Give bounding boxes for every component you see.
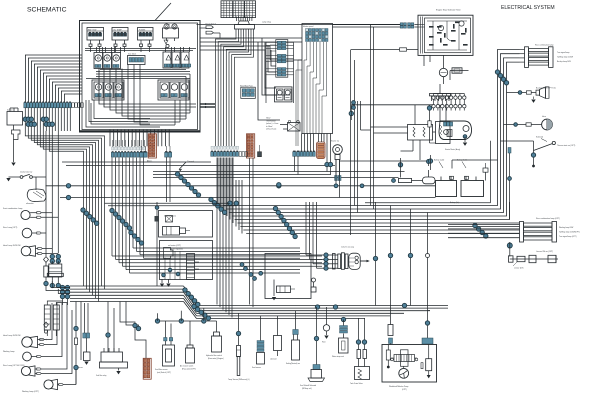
- capacitor element on wire x157: [155, 202, 159, 286]
- solenoid box with X: [280, 120, 300, 131]
- head lamp right: [3, 303, 57, 348]
- node on bus x404: [402, 303, 406, 307]
- svg-text:Fuel Shutoff Solenoid: Fuel Shutoff Solenoid: [300, 384, 316, 387]
- wires above strip S2: [113, 140, 145, 147]
- connector strip S3 teal: [211, 151, 239, 157]
- wires from S7a stack west: [270, 45, 276, 51]
- connector chain I on mid bus: [273, 206, 297, 238]
- connector pair S5a: [140, 151, 148, 157]
- relay group 2 (3 relays): [163, 47, 191, 68]
- nodes bus left: [315, 305, 345, 322]
- svg-text:Head Lamp 35/36.5W: Head Lamp 35/36.5W: [3, 245, 21, 247]
- wires bend to red connector: [120, 302, 146, 359]
- svg-text:(not) Switch (OPT): (not) Switch (OPT): [157, 371, 171, 374]
- comb staircase into vertical bundle: [216, 36, 254, 146]
- air heater box: [160, 241, 213, 280]
- svg-text:Starter Motor (Assy): Starter Motor (Assy): [445, 148, 461, 151]
- box right of air heater: [265, 254, 311, 301]
- svg-text:Turn signal lamp: Turn signal lamp: [557, 51, 569, 54]
- svg-text:Safety(Neutral) sw: Safety(Neutral) sw: [286, 362, 301, 365]
- connector matrix table: [221, 1, 256, 18]
- node mid-left a: [44, 281, 48, 285]
- svg-text:T-branch: T-branch: [187, 161, 194, 163]
- wires into column switch: [306, 202, 324, 268]
- fuse panel outer box: [80, 21, 201, 133]
- svg-text:(OPT): (OPT): [402, 389, 407, 391]
- component hydraulic filter switch: [206, 321, 224, 360]
- node battery feed mid: [277, 184, 281, 188]
- svg-text:Thermo start sw (OPT): Thermo start sw (OPT): [557, 144, 576, 147]
- teal nodes inside air heater box: [162, 268, 180, 277]
- orange hatched connector: [317, 134, 326, 159]
- connector block battery-sw: [87, 28, 104, 47]
- svg-text:to Glow!: to Glow!: [266, 125, 273, 128]
- connector dot pairs row 1: [23, 117, 33, 121]
- svg-text:(Evacuator) (OPT): (Evacuator) (OPT): [182, 368, 196, 371]
- svg-text:Water temp unit: Water temp unit: [332, 355, 344, 358]
- component air cleaner switch: [180, 321, 196, 371]
- svg-text:Battery Cable: Battery Cable: [434, 159, 444, 162]
- svg-text:Windshield Washer Pump: Windshield Washer Pump: [389, 385, 408, 388]
- wires monitor to strip S4: [302, 134, 314, 152]
- lamp relay comb: [235, 21, 271, 36]
- fan display box: [159, 211, 213, 238]
- column switch connector dots: [324, 253, 328, 270]
- dark connector pair: [258, 145, 262, 157]
- svg-text:FUSES: FUSES: [139, 29, 146, 31]
- wires to glow controller: [371, 105, 436, 133]
- svg-text:Backup lamp 10W: Backup lamp 10W: [557, 61, 571, 63]
- glow controller box: [408, 125, 433, 141]
- wires monitor box left edge down: [296, 60, 302, 101]
- pump valve cross block: [391, 350, 418, 367]
- svg-text:Engine Stop Solenoid Timer: Engine Stop Solenoid Timer: [436, 9, 461, 12]
- relay group 4 (lower right): [158, 80, 189, 100]
- main relay: [163, 24, 179, 41]
- monitor panel connector grid: [306, 29, 329, 42]
- head lamp left: [3, 245, 58, 256]
- nodes scattered top right: [428, 155, 432, 170]
- sub bus line below batteries: [365, 141, 491, 203]
- svg-text:Horn: Horn: [322, 341, 326, 344]
- component water temp unit: [332, 320, 348, 359]
- svg-text:BATT SW: BATT SW: [88, 28, 96, 31]
- node below C2: [507, 242, 512, 257]
- component small horn with ground: [322, 307, 330, 344]
- battery feed line upper: [46, 185, 436, 187]
- svg-text:ELECTRICAL SYSTEM: ELECTRICAL SYSTEM: [501, 5, 555, 11]
- component fuel shutoff solenoid: [300, 307, 325, 390]
- wires below timer box: [424, 55, 430, 66]
- wires through inline connector S8: [333, 25, 419, 27]
- open node below column switch: [311, 278, 316, 292]
- verticals below glow brown connector: [250, 158, 254, 307]
- node on resistor chain: [392, 179, 396, 183]
- bottom bus step diagonals: [184, 286, 197, 319]
- component temp sensor thin: [228, 313, 250, 381]
- vertical x390 with node: [388, 206, 392, 321]
- t-branch arrow pointer: [179, 161, 194, 171]
- fuel filter relay on bracket: [96, 302, 128, 378]
- svg-text:batt sw: batt sw: [7, 109, 13, 112]
- small element below diamond: [44, 266, 48, 282]
- center vertical pair x354-357: [355, 60, 358, 213]
- vertical bundle B (from strip S2 down): [112, 158, 322, 274]
- traction lock switch box: [7, 108, 23, 125]
- svg-text:solenoid: solenoid: [270, 359, 276, 361]
- rear combination connector C1: [520, 44, 574, 68]
- vertical x427 with open node: [425, 213, 429, 339]
- svg-text:Hydraulic filter switch: Hydraulic filter switch: [206, 354, 222, 357]
- svg-text:Solenoid: Solenoid: [536, 137, 543, 139]
- fuse panel heavy feed lines: [200, 103, 215, 108]
- node mid-left b: [50, 283, 54, 287]
- wire traction to ground: [13, 140, 15, 163]
- connector block fuses: [138, 28, 154, 47]
- left fan wires descending then east then south into bundle A: [25, 131, 104, 205]
- svg-text:(W/Stop sol.): (W/Stop sol.): [302, 387, 312, 390]
- svg-text:Monitor panel: Monitor panel: [303, 25, 314, 28]
- controller area feed wires: [361, 101, 447, 160]
- plug below traction box: [12, 125, 21, 140]
- svg-text:Turn signal lamp (OPT): Turn signal lamp (OPT): [559, 235, 577, 238]
- stack side stub wires: [266, 42, 294, 103]
- wire pair below S4b: [295, 156, 299, 174]
- mid bus horizontal bundle: [223, 202, 520, 234]
- engine stop solenoid timer box inner: [425, 18, 471, 53]
- svg-text:Working lamp 55W: Working lamp 55W: [559, 226, 574, 229]
- node pair on center verticals: [352, 101, 356, 110]
- svg-text:Starter sw: Starter sw: [331, 140, 340, 143]
- rear connector C2: [520, 217, 580, 242]
- svg-text:Rear combination lamp: Rear combination lamp: [535, 44, 553, 47]
- svg-text:Backup Alarm (OPT 8.5): Backup Alarm (OPT 8.5): [536, 87, 556, 90]
- svg-text:Tail/Stop lamp 21/5W(OPT): Tail/Stop lamp 21/5W(OPT): [559, 231, 580, 234]
- svg-text:Fuel filter sensor: Fuel filter sensor: [155, 368, 168, 371]
- connector stack S7a: [277, 41, 286, 49]
- bottom bus right segment: [197, 306, 449, 319]
- svg-text:fan display (re): fan display (re): [164, 216, 176, 218]
- bottom bus left segment: [70, 286, 184, 302]
- component oil pressure switch: [286, 311, 301, 366]
- connector strip S3 labels above: [211, 146, 239, 149]
- feed line y104.8 right side: [349, 105, 433, 120]
- connector chain A: [81, 208, 99, 226]
- connector chain G on lamp lines: [473, 223, 488, 238]
- top-center vertical drops to stacks: [258, 38, 280, 120]
- node mid-left c: [56, 283, 60, 287]
- relay group 1 (3 relays): [94, 47, 121, 69]
- vertical bundle C: [133, 158, 300, 259]
- connector strip S3 white cells: [239, 152, 248, 157]
- backup alarm symbol: [507, 87, 556, 103]
- rear working lamp: [3, 303, 72, 376]
- mid bundle horizontal wires y171-179: [153, 172, 405, 178]
- svg-text:Fuel sensor: Fuel sensor: [252, 366, 261, 369]
- glow plugs assembly: [432, 94, 466, 111]
- wire battery top link: [452, 160, 498, 169]
- pump resistor: [421, 345, 432, 379]
- fuse panel bottom exit wires: [110, 130, 169, 147]
- ground arrow neutral switch: [6, 178, 10, 181]
- connector stack S7b: [277, 54, 286, 62]
- component solenoid rect: [270, 316, 282, 361]
- connector strip S4b small: [293, 151, 300, 157]
- svg-text:fuse block: fuse block: [128, 54, 136, 56]
- wires fuse panel right edge to monitor panel: [200, 38, 302, 95]
- svg-text:(fluid sw): (fluid sw): [40, 339, 47, 341]
- pump motor: [399, 366, 409, 378]
- connector chain on bus step 2: [192, 304, 211, 320]
- node on battery feed 2: [360, 184, 364, 188]
- svg-text:Rear Lamp (OPT): Rear Lamp (OPT): [3, 227, 18, 229]
- long top feed wire y24: [197, 23, 401, 25]
- fuse element on harness branch: [508, 148, 512, 181]
- monitor panel internal fan wires: [304, 42, 327, 134]
- starter motor: [439, 121, 472, 151]
- connector stack S7c: [277, 68, 286, 76]
- node pair above mid bus: [228, 201, 239, 205]
- relay group 3 (lower left): [92, 80, 124, 100]
- connector chain C: [129, 230, 144, 245]
- ground arrows mid bottom: [160, 279, 171, 287]
- diamond connector lower: [44, 322, 49, 333]
- long feed lines y162-165 east: [62, 161, 429, 166]
- pump box label: [389, 385, 408, 391]
- fuel pump rounded component: [423, 160, 436, 184]
- connector chain small L: [249, 271, 263, 280]
- ground arrow traction: [11, 163, 15, 166]
- svg-text:OIL TEMP: OIL TEMP: [113, 29, 122, 31]
- node on battery feed upper: [66, 184, 70, 188]
- connector chain B: [110, 208, 132, 230]
- red hatched connector bottom: [143, 358, 151, 379]
- svg-text:neutral start sw: neutral start sw: [20, 171, 33, 174]
- neutral start switch: [9, 171, 47, 179]
- starter key switch: [331, 140, 342, 181]
- svg-text:sensor: sensor: [78, 367, 83, 369]
- connector strip S2 teal: [111, 151, 145, 157]
- svg-text:Column sw assy: Column sw assy: [341, 247, 354, 249]
- thermo start switch: [501, 137, 576, 168]
- svg-text:Air cleaner switch: Air cleaner switch: [180, 365, 193, 368]
- wire timer west with fuse: [351, 48, 419, 235]
- vertical x410 with node: [408, 209, 412, 306]
- slow blow fuse block: [240, 85, 255, 98]
- svg-text:Tank Drain Valve: Tank Drain Valve: [350, 382, 363, 385]
- component washer feed element: [388, 320, 393, 345]
- alternator body: [26, 177, 46, 205]
- svg-text:Head Lamp 35/36.5W: Head Lamp 35/36.5W: [3, 335, 21, 337]
- rear lamp: [3, 227, 46, 238]
- connector strip S2 labels above: [112, 147, 146, 150]
- svg-text:Working Lamp: Working Lamp: [3, 351, 15, 353]
- diamond connector: [44, 257, 49, 267]
- connector dots flasher: [50, 254, 60, 263]
- left fan from fuse panel to strip connector: [25, 55, 82, 103]
- connector block oil-temp: [112, 28, 128, 47]
- connector chain small K: [240, 263, 247, 271]
- right harness verticals: [498, 50, 520, 203]
- svg-text:Rear combination lamp (OPT): Rear combination lamp (OPT): [536, 217, 560, 220]
- fuel sender below timer: [439, 55, 447, 84]
- svg-text:without fuse): without fuse): [266, 128, 277, 131]
- column switch body: [328, 247, 370, 270]
- vertical wires to flasher column: [46, 131, 58, 256]
- check switch: [199, 23, 220, 39]
- svg-text:Tail/Stop lamp 21/5W: Tail/Stop lamp 21/5W: [557, 56, 573, 59]
- svg-text:Altern.: Altern.: [147, 160, 153, 163]
- inline connector S8: [400, 23, 414, 28]
- connector strip S4 teal: [300, 151, 315, 157]
- glow plug comb: [430, 84, 451, 101]
- connector strip S1 white cells: [72, 103, 84, 108]
- DIP switch block: [128, 54, 146, 65]
- svg-text:(Evacuator) (Engine): (Evacuator) (Engine): [208, 357, 224, 360]
- svg-text:Front combination Lamp: Front combination Lamp: [3, 207, 22, 210]
- vertical x375 with node: [373, 202, 377, 306]
- bottom bus left corner bends: [46, 281, 70, 294]
- front combination lamp: [3, 207, 58, 220]
- diode symbol: [164, 40, 169, 48]
- connector chain H on harness: [495, 70, 508, 85]
- component fuel sensor with teal top: [252, 316, 265, 370]
- vertical taps from S8 wires: [371, 25, 374, 209]
- component washer feed connector right: [422, 311, 433, 345]
- windshield washer pump box: [382, 345, 437, 383]
- connector dot pairs row 2: [26, 122, 36, 126]
- battery 2: [450, 159, 484, 205]
- license lamp chain: [509, 250, 559, 270]
- brake fluid cylinder pair: [40, 299, 68, 341]
- right harness extra vertical: [509, 150, 511, 220]
- svg-text:Temp Sensor (W/Sensor) (L): Temp Sensor (W/Sensor) (L): [228, 378, 250, 381]
- wires below strip S1: [25, 107, 70, 131]
- svg-text:alternator: alternator: [26, 202, 34, 205]
- svg-text:Lamp relay: Lamp relay: [262, 22, 271, 24]
- node on battery feed lower: [66, 195, 70, 199]
- connector stack assembly box: [276, 40, 288, 78]
- vertical pair x76 with fuse: [74, 302, 81, 385]
- thermostart text block: [266, 118, 278, 131]
- fuse panel inner box: [82, 23, 198, 130]
- relay pair box: [275, 87, 293, 102]
- connector chain D2: [209, 197, 227, 214]
- battery 1: [434, 159, 457, 197]
- connector chain on bus step: [183, 288, 200, 307]
- connector strip S1 teal: [24, 102, 72, 108]
- engine stop solenoid timer box outer: [418, 15, 473, 55]
- connector chain D: [175, 172, 200, 197]
- working lamp: [3, 303, 62, 361]
- svg-text:sensor (LH): sensor (LH): [514, 268, 524, 270]
- horn circuit: [504, 116, 553, 130]
- vertical bundle A (continue down to bottom bus): [84, 205, 105, 302]
- fusible link component: [450, 68, 469, 80]
- connector pair S5b: [165, 151, 172, 157]
- brown connector left (alternator): [148, 134, 156, 158]
- node x400 y164: [398, 158, 402, 178]
- teal connector pair x83-89: [78, 303, 90, 369]
- mid bus left staircase to center verticals: [218, 158, 242, 234]
- working lamp optional: [22, 369, 76, 393]
- resistor box with X: [166, 216, 173, 223]
- component tank drain valve: [350, 318, 370, 385]
- four lamp lines to connector C2: [448, 225, 520, 238]
- fuse panel heavy bottom border: [80, 130, 200, 132]
- monitor panel box: [302, 24, 333, 134]
- center verticals continue below strip S3: [217, 158, 232, 318]
- pointer line to fuse panel: [155, 3, 171, 21]
- pump left element: [386, 345, 390, 369]
- node below solenoid: [277, 183, 281, 187]
- svg-text:air heater (OPT): air heater (OPT): [168, 244, 181, 247]
- svg-text:Horn: Horn: [542, 116, 546, 118]
- timer inner gap wires: [418, 17, 425, 54]
- svg-text:Rear Lamp (OPT 40/7.5W): Rear Lamp (OPT 40/7.5W): [3, 365, 25, 367]
- flasher unit cylinder: [47, 261, 63, 283]
- svg-text:SCHEMATIC: SCHEMATIC: [27, 7, 67, 14]
- svg-text:(select.) + Fuse: (select.) + Fuse: [266, 122, 278, 125]
- svg-text:relay: relay: [166, 24, 170, 26]
- svg-text:License/Tilt sw (OPT): License/Tilt sw (OPT): [536, 250, 554, 253]
- brown connector right (glow): [247, 134, 255, 158]
- battery terminal link: [483, 163, 488, 181]
- teal node cluster: [60, 285, 69, 298]
- component fuel filter sensor: [155, 321, 175, 374]
- horizontal resistor component: [399, 178, 423, 182]
- bus feeder sub-line: [155, 308, 217, 323]
- monitor bottom nodes: [325, 134, 333, 175]
- glow controller box 2: [436, 122, 451, 144]
- battery feed line lower: [60, 197, 436, 199]
- svg-text:Working Lamp (OPT): Working Lamp (OPT): [22, 391, 39, 393]
- vertical bundle below monitor left: [296, 101, 298, 146]
- svg-text:Glow!: Glow!: [266, 118, 271, 120]
- matrix table to comb ticks: [237, 17, 252, 22]
- bus top feed lines west: [105, 203, 237, 206]
- starter feed vertical with fuse: [427, 105, 436, 143]
- timer internal circuit: [427, 21, 468, 50]
- wires S5 pairs vertical: [142, 146, 171, 202]
- fuse panel internal wiring mesh: [85, 47, 196, 128]
- wires from key switch down to feed lines: [334, 160, 339, 198]
